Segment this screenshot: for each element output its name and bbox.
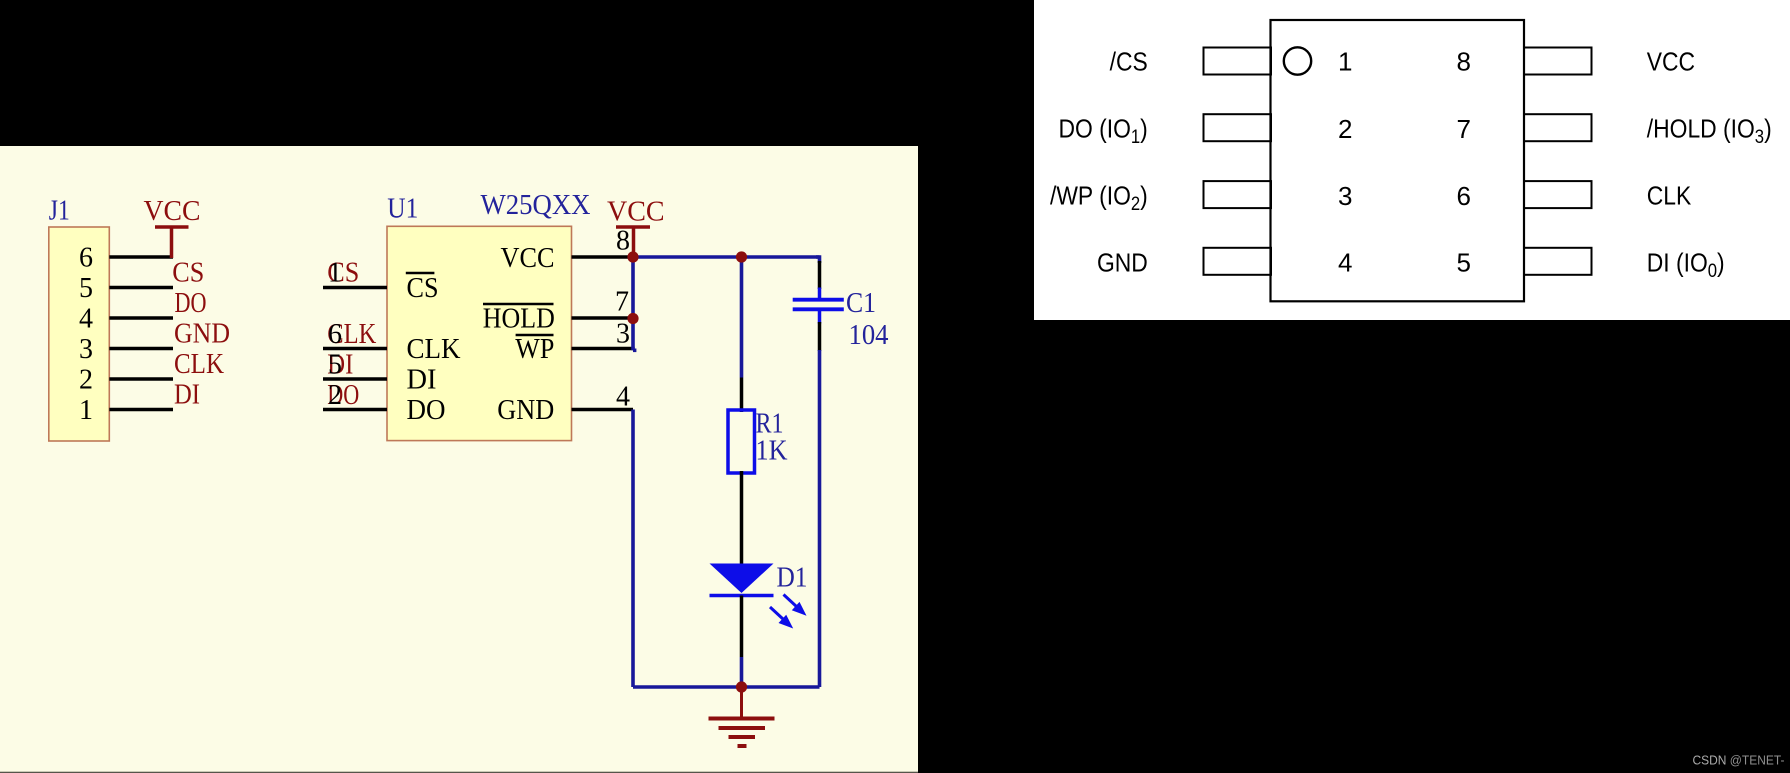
svg-text:7: 7 xyxy=(1457,114,1471,144)
pin box left 4 xyxy=(1204,248,1272,275)
svg-text:1: 1 xyxy=(79,395,93,426)
svg-text:VCC: VCC xyxy=(1647,48,1695,77)
ground symbol xyxy=(709,687,775,746)
svg-text:104: 104 xyxy=(849,320,889,351)
svg-text:4: 4 xyxy=(616,382,630,413)
svg-text:5: 5 xyxy=(79,273,93,304)
LED D1 cathode bar xyxy=(710,594,774,598)
pin box right 1 xyxy=(1524,48,1592,75)
wire pin3 connect xyxy=(633,348,636,352)
pin box left 3 xyxy=(1204,181,1272,208)
wire LED bottom (black) xyxy=(740,596,744,658)
svg-text:6: 6 xyxy=(328,319,342,350)
J1 pin 6 wire xyxy=(109,255,173,259)
connector J1 body xyxy=(49,227,110,441)
svg-text:VCC: VCC xyxy=(144,196,201,227)
U1 inner label HOLD with overbar xyxy=(483,304,555,335)
capacitor C1 xyxy=(793,288,844,324)
U1 pin CLK wire (pin 6) xyxy=(323,347,387,351)
svg-text:2: 2 xyxy=(1338,114,1352,144)
svg-text:/CS: /CS xyxy=(1110,48,1148,77)
U1 pin 3 wire (WP) xyxy=(572,347,635,351)
svg-text:4: 4 xyxy=(79,304,93,335)
svg-text:8: 8 xyxy=(616,226,630,257)
J1 pin 4 wire xyxy=(109,316,173,320)
power symbol VCC at U1 pin 8 xyxy=(616,227,650,253)
U1 pin 4 wire (GND) xyxy=(572,408,634,412)
wire right column lower (navy) xyxy=(818,350,822,687)
wire R1 top pin (black) xyxy=(740,378,744,413)
svg-text:7: 7 xyxy=(615,287,629,318)
svg-text:DI: DI xyxy=(174,380,200,411)
svg-text:5: 5 xyxy=(1457,248,1471,278)
J1 pin 1 wire xyxy=(109,408,173,412)
junction dot at pin8 xyxy=(627,251,638,262)
LED D1 triangle xyxy=(710,564,774,594)
pin box right 4 xyxy=(1524,248,1592,275)
U1 inner label WP with overbar xyxy=(515,334,554,365)
wire middle column upper (navy) xyxy=(740,257,744,378)
IC U1 body xyxy=(387,226,572,440)
svg-text:DO: DO xyxy=(407,395,446,426)
wire C1 bottom pin (black) xyxy=(818,322,822,351)
svg-text:CSDN @TENET-: CSDN @TENET- xyxy=(1693,753,1785,768)
svg-text:U1: U1 xyxy=(387,194,418,225)
svg-text:D1: D1 xyxy=(777,563,808,594)
svg-text:6: 6 xyxy=(79,243,93,274)
svg-text:6: 6 xyxy=(1457,181,1471,211)
svg-text:J1: J1 xyxy=(49,196,70,227)
svg-text:VCC: VCC xyxy=(501,243,555,274)
svg-text:CLK: CLK xyxy=(1647,182,1692,211)
U1 pin CS wire (pin 1) xyxy=(323,286,387,290)
power symbol VCC at J1 xyxy=(155,227,189,258)
pin 1 indicator circle xyxy=(1284,47,1311,74)
wire GND net: bottom horizontal xyxy=(633,685,820,689)
pin box right 3 xyxy=(1524,181,1592,208)
svg-text:3: 3 xyxy=(79,334,93,365)
pinout panel xyxy=(1034,0,1790,320)
svg-text:2: 2 xyxy=(328,380,342,411)
chip outline xyxy=(1271,20,1525,301)
svg-text:4: 4 xyxy=(1338,248,1352,278)
LED light arrow 2 xyxy=(770,607,793,629)
wire C1 top pin (black) xyxy=(818,261,822,289)
pin box right 2 xyxy=(1524,114,1592,141)
svg-text:VCC: VCC xyxy=(607,197,665,228)
svg-text:8: 8 xyxy=(1457,47,1471,77)
svg-text:DI: DI xyxy=(407,365,437,396)
svg-text:3: 3 xyxy=(1338,181,1352,211)
pin box left 1 xyxy=(1204,48,1272,75)
wire VCC horizontal net xyxy=(633,255,820,259)
svg-text:3: 3 xyxy=(616,319,630,350)
svg-text:HOLD: HOLD xyxy=(483,304,555,335)
wire right column corner (navy) xyxy=(816,257,820,263)
svg-text:GND: GND xyxy=(174,319,230,350)
svg-text:5: 5 xyxy=(328,350,342,381)
junction dot at middle column top xyxy=(736,251,747,262)
U1 pin 8 wire (VCC) xyxy=(572,255,634,259)
svg-text:/HOLD (IO3): /HOLD (IO3) xyxy=(1647,115,1772,147)
J1 pin 5 wire xyxy=(109,286,173,290)
U1 pin DI wire (pin 5) xyxy=(323,377,387,381)
U1 pin DO wire (pin 2) xyxy=(323,408,387,412)
junction dot at ground node xyxy=(736,681,747,692)
svg-text:C1: C1 xyxy=(846,288,876,319)
resistor R1 body xyxy=(728,410,755,473)
svg-text:DO: DO xyxy=(175,288,207,319)
svg-text:2: 2 xyxy=(79,365,93,396)
svg-text:1: 1 xyxy=(328,258,342,289)
J1 pin 2 wire xyxy=(109,377,173,381)
sheet bottom edge line xyxy=(0,772,918,773)
pin box left 2 xyxy=(1204,114,1272,141)
LED light arrow 1 xyxy=(784,595,807,616)
svg-text:1: 1 xyxy=(1338,47,1352,77)
J1 pin 3 wire xyxy=(109,347,173,351)
svg-text:CS: CS xyxy=(407,273,439,304)
svg-text:GND: GND xyxy=(497,395,554,426)
svg-text:CLK: CLK xyxy=(407,334,461,365)
wire GND net: pin4 down xyxy=(631,410,635,688)
wire R1 bottom to LED (black) xyxy=(740,471,744,564)
svg-text:CLK: CLK xyxy=(174,349,224,380)
U1 pin 7 wire (HOLD) xyxy=(572,316,634,320)
wire LED to ground node (navy) xyxy=(740,657,744,687)
U1 inner label CS with overbar xyxy=(406,273,439,304)
svg-text:1K: 1K xyxy=(756,436,788,467)
svg-text:CS: CS xyxy=(172,258,204,289)
svg-text:W25QXX: W25QXX xyxy=(481,190,591,221)
svg-text:GND: GND xyxy=(1097,249,1148,278)
wire from pin8 down to pin3 xyxy=(631,257,635,350)
junction dot at pin7 xyxy=(627,313,638,324)
schematic sheet xyxy=(0,146,918,773)
svg-text:WP: WP xyxy=(515,334,554,365)
